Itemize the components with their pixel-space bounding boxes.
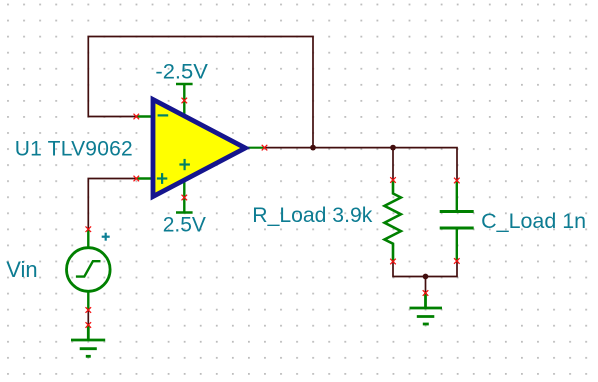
op-amp U1 TLV9062 triangle body — [153, 100, 245, 197]
wire bottom node R to C — [393, 261, 457, 277]
voltage source Vin plus polarity marker — [102, 233, 110, 241]
junction dot at R_Load top node — [390, 145, 396, 151]
voltage source Vin step waveform symbol — [76, 261, 101, 276]
net port 2.5V T-bar stub — [183, 198, 185, 213]
wire noninverting input to Vin — [88, 179, 136, 230]
wire feedback loop from output node to inverting input — [88, 37, 313, 148]
voltage source Vin bottom pin stub — [87, 291, 89, 310]
wire R_Load top branch — [392, 148, 394, 180]
x mark C_Load bottom pin — [454, 258, 460, 264]
wire Vin minus to ground — [87, 310, 89, 325]
svg-text:2.5V: 2.5V — [163, 213, 206, 236]
x mark bottom supply pin — [182, 195, 188, 201]
x mark Vin minus pin — [86, 307, 92, 313]
junction dot at output feedback node — [310, 145, 316, 151]
op-amp U1 inverting input minus marker — [158, 114, 169, 116]
svg-text:-2.5V: -2.5V — [155, 61, 208, 84]
x mark inverting input pin — [134, 114, 140, 120]
op-amp U1 pin stub top supply — [183, 101, 185, 117]
capacitor C_Load — [440, 181, 474, 262]
pin connection x marks — [86, 98, 460, 328]
op-amp U1 noninverting input plus marker — [157, 173, 167, 184]
ground symbol under load node — [410, 293, 443, 324]
voltage source Vin circle — [67, 248, 111, 292]
x mark Vin plus pin — [86, 226, 92, 232]
op-amp U1 positive supply plus marker — [179, 159, 190, 170]
op-amp U1 pin stub noninverting input — [136, 177, 153, 180]
resistor R_Load — [385, 180, 401, 262]
wire bottom node to ground — [425, 277, 427, 294]
op-amp U1 pin stub output — [246, 147, 265, 149]
x mark R_Load top pin — [390, 177, 396, 183]
op-amp U1 pin stub inverting input — [136, 115, 153, 118]
x mark ground pin right — [423, 290, 429, 296]
ground symbol under Vin — [71, 325, 105, 356]
op-amp U1 pin stub bottom supply — [183, 180, 185, 198]
svg-text:R_Load 3.9k: R_Load 3.9k — [252, 204, 372, 227]
svg-text:Vin: Vin — [6, 257, 37, 282]
x mark output pin — [262, 145, 268, 151]
x mark R_Load bottom pin — [390, 259, 396, 265]
wire output net horizontal to load, corner down to C_Load top — [265, 148, 458, 180]
svg-text:U1 TLV9062: U1 TLV9062 — [15, 137, 133, 160]
x mark ground pin left — [86, 322, 92, 328]
x mark top supply pin — [182, 98, 188, 104]
net port -2.5V T-bar stub — [183, 84, 185, 101]
svg-text:C_Load 1n: C_Load 1n — [481, 210, 586, 233]
junction dot at bottom load node — [423, 274, 429, 280]
x mark C_Load top pin — [454, 178, 460, 184]
voltage source Vin top pin stub — [87, 229, 89, 248]
x mark noninverting input pin — [134, 176, 140, 182]
